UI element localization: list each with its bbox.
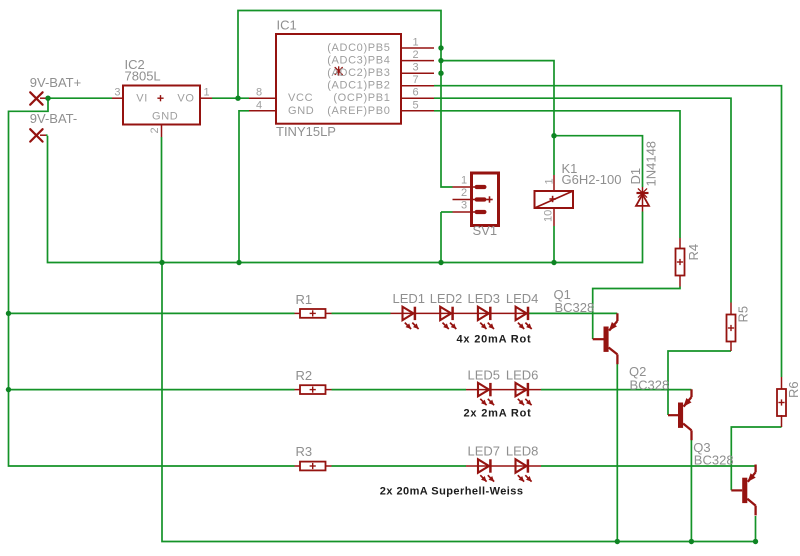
- svg-text:BC328: BC328: [555, 300, 595, 315]
- svg-text:LED1: LED1: [393, 291, 426, 306]
- svg-text:LED2: LED2: [430, 291, 463, 306]
- svg-text:GND: GND: [288, 105, 314, 117]
- svg-text:R2: R2: [296, 368, 313, 383]
- svg-text:10: 10: [543, 210, 555, 222]
- svg-text:R1: R1: [296, 292, 313, 307]
- svg-text:LED8: LED8: [506, 443, 539, 458]
- svg-text:(ADC0)PB5: (ADC0)PB5: [327, 42, 390, 54]
- svg-text:1: 1: [461, 175, 467, 187]
- svg-text:3: 3: [461, 200, 467, 212]
- svg-text:LED5: LED5: [468, 368, 501, 383]
- svg-text:G6H2-100: G6H2-100: [562, 172, 622, 187]
- svg-text:2: 2: [461, 187, 467, 199]
- svg-text:7805L: 7805L: [125, 69, 161, 84]
- svg-text:(ADC3)PB4: (ADC3)PB4: [327, 55, 390, 67]
- svg-text:7: 7: [412, 74, 418, 86]
- svg-text:R4: R4: [686, 244, 701, 261]
- svg-text:9V-BAT-: 9V-BAT-: [30, 111, 77, 126]
- svg-text:LED6: LED6: [506, 368, 539, 383]
- svg-text:VI: VI: [136, 92, 148, 104]
- svg-text:3: 3: [114, 87, 120, 99]
- svg-text:2x 2mA Rot: 2x 2mA Rot: [464, 408, 532, 420]
- svg-text:R5: R5: [736, 306, 751, 323]
- svg-text:6: 6: [412, 87, 418, 99]
- svg-text:1: 1: [204, 87, 210, 99]
- svg-text:3: 3: [412, 62, 418, 74]
- svg-text:BC328: BC328: [630, 377, 670, 392]
- svg-text:R6: R6: [786, 381, 800, 398]
- svg-text:1: 1: [412, 37, 418, 49]
- svg-text:GND: GND: [152, 111, 178, 123]
- svg-text:1N4148: 1N4148: [644, 141, 659, 187]
- svg-text:R3: R3: [296, 444, 313, 459]
- svg-text:(ADC1)PB2: (ADC1)PB2: [327, 80, 390, 92]
- svg-text:(OCP)PB1: (OCP)PB1: [333, 92, 390, 104]
- svg-text:IC1: IC1: [277, 18, 297, 33]
- svg-text:(AREF)PB0: (AREF)PB0: [327, 105, 390, 117]
- svg-text:TINY15LP: TINY15LP: [276, 124, 336, 139]
- svg-text:4: 4: [256, 99, 262, 111]
- svg-text:(ADC2)PB3: (ADC2)PB3: [327, 67, 390, 79]
- svg-text:LED4: LED4: [506, 291, 539, 306]
- svg-text:8: 8: [256, 87, 262, 99]
- svg-text:2: 2: [149, 127, 161, 133]
- svg-text:2: 2: [412, 49, 418, 61]
- svg-text:2x 20mA Superhell-Weiss: 2x 20mA Superhell-Weiss: [380, 486, 524, 498]
- svg-text:VCC: VCC: [288, 92, 313, 104]
- svg-text:D1: D1: [628, 168, 643, 185]
- svg-text:LED7: LED7: [468, 443, 501, 458]
- svg-text:9V-BAT+: 9V-BAT+: [30, 75, 81, 90]
- svg-text:VO: VO: [177, 92, 194, 104]
- svg-text:BC328: BC328: [694, 453, 734, 468]
- svg-text:SV1: SV1: [473, 223, 498, 238]
- svg-text:LED3: LED3: [468, 291, 501, 306]
- svg-text:5: 5: [412, 99, 418, 111]
- svg-text:4x 20mA Rot: 4x 20mA Rot: [457, 334, 532, 346]
- svg-text:1: 1: [544, 178, 556, 184]
